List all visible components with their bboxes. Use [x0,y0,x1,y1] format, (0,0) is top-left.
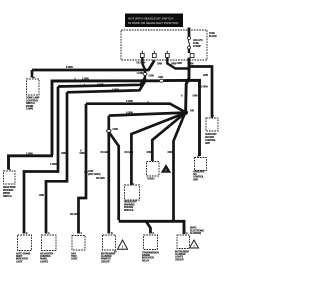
fuse HAZ-LPS 20 AMP [188,37,203,50]
svg-text:DK GRN: DK GRN [125,152,134,154]
svg-text:UNIT: UNIT [193,179,199,181]
svg-text:LIGHT: LIGHT [71,259,78,261]
svg-text:AUXILIARY: AUXILIARY [193,171,205,174]
svg-text:CIRCUIT: CIRCUIT [175,259,184,261]
bottom box 1 [16,235,32,263]
connector pin 1 at fuse block bottom [137,51,146,65]
fan wire to box7 [125,113,186,185]
svg-text:LIGHT: LIGHT [16,261,23,263]
svg-text:S40: S40 [190,110,195,113]
svg-text:DK GRN: DK GRN [101,152,110,154]
svg-text:HEATER: HEATER [205,136,214,139]
radio box [147,162,160,181]
bottom box 5 transmission [142,235,159,262]
right box RB1 [205,116,218,146]
svg-text:8 ORN: 8 ORN [66,67,73,69]
svg-text:(WITH: (WITH [190,228,197,230]
svg-text:ASH: ASH [71,253,76,256]
svg-text:ORN: ORN [203,75,208,77]
svg-text:DK GRN: DK GRN [70,214,79,216]
svg-text:FUSE: FUSE [193,43,199,45]
wire L2 (2 ORN) splice to C208 [109,113,185,116]
svg-text:IN PARK OR HEADLIGHT POSITION: IN PARK OR HEADLIGHT POSITION [128,21,178,25]
svg-text:FUSE: FUSE [209,33,215,35]
svg-text:INDICATOR: INDICATOR [142,257,154,260]
nest wire 3 (1 ORN) to splice [67,82,145,93]
svg-text:WIPER: WIPER [3,193,11,195]
svg-text:CLUSTER): CLUSTER) [190,233,201,235]
svg-text:AUXILIARY: AUXILIARY [205,133,217,136]
svg-text:2 ORN: 2 ORN [201,87,208,89]
nest wire 1 horizontal (1 ORN) [52,77,208,156]
svg-text:ORN: ORN [157,63,162,65]
svg-text:ORN: ORN [147,152,152,154]
warning triangle right [190,240,199,248]
bottom box 3 [71,236,85,261]
wire to rear window switch [9,154,54,170]
svg-text:C200: C200 [149,76,155,78]
svg-text:(DOME: (DOME [26,106,34,108]
pin label feed [181,95,198,98]
wire branch to auxiliary box right (top) [190,67,212,118]
pin labels row above fan labels [61,153,85,155]
wire below C208 to box4 [96,133,110,234]
svg-text:TRAY: TRAY [71,255,77,258]
svg-text:ORN: ORN [193,96,198,98]
C208 connector [107,116,119,133]
with electronic cluster note [190,228,205,236]
rear window wiper washer switch box [3,170,16,199]
svg-text:A/C-HEATER: A/C-HEATER [40,253,54,256]
svg-text:WASHER/: WASHER/ [3,189,14,192]
svg-text:ORN: ORN [61,153,66,155]
connector pin 3 at fuse block bottom [165,51,176,66]
pin letters bottom boxes [26,232,188,235]
svg-text:INDICATOR: INDICATOR [16,258,28,261]
svg-text:COURTESY: COURTESY [26,100,39,102]
svg-text:HOT WITH HEADLIGHT SWITCH: HOT WITH HEADLIGHT SWITCH [128,16,173,20]
dome lamp box [26,78,40,111]
svg-text:C203: C203 [177,63,183,65]
svg-text:LIGHTS: LIGHTS [40,261,48,263]
warning triangle near radio [161,165,171,173]
svg-text:WARNING: WARNING [124,203,135,206]
svg-text:A: A [80,150,82,153]
svg-text:CONTROL: CONTROL [205,140,216,142]
svg-text:B: B [111,233,113,235]
fan wire to bus [168,113,186,221]
svg-text:DK GRN: DK GRN [137,63,146,65]
svg-text:SWITCH: SWITCH [26,103,35,105]
bottom box 6 instrument cluster [175,235,190,261]
junction nest1 with feed [187,79,191,83]
wire 8 ORN to dome lamp [32,61,154,78]
bottom box 2 [40,235,56,263]
svg-text:AUTO TRANS: AUTO TRANS [16,253,31,256]
svg-text:2 ORN: 2 ORN [126,101,133,103]
svg-text:LAMP): LAMP) [26,108,33,111]
wire from title box to fuse [188,28,191,38]
svg-text:C201: C201 [158,77,164,79]
svg-text:1 ORN: 1 ORN [82,78,89,80]
svg-text:C208: C208 [113,129,119,131]
svg-text:ORN: ORN [168,152,173,154]
svg-text:E: E [26,233,28,235]
svg-text:RANGE: RANGE [142,254,150,257]
wires C2 C3 merge to feed [167,58,188,69]
svg-text:PANEL: PANEL [40,258,48,261]
wire from nest2 area to box3 upper label [80,150,82,153]
splice S40 [183,110,194,115]
nest wire 2 (2 ORN) to splice [58,78,145,87]
svg-text:CIRCUIT: CIRCUIT [101,261,110,263]
svg-text:HAZ-LPS: HAZ-LPS [193,39,203,42]
svg-text:A: A [181,95,183,98]
bottom bus wire [119,221,184,234]
nest wire 3 vertical, jog to box2 [39,92,67,233]
fan wire to radio box [147,113,186,161]
branch bus to box5 [146,221,151,233]
svg-text:DK GRN: DK GRN [96,178,105,180]
svg-text:BUZZER: BUZZER [124,207,133,209]
svg-text:ELECTRONIC: ELECTRONIC [190,230,205,232]
svg-text:RELAY: RELAY [142,259,150,262]
fuse block name label [209,33,217,38]
svg-text:HEADLIGHT: HEADLIGHT [124,201,137,204]
main feed wire C4 to splice S40 [186,58,189,113]
wire L1 (2 ORN) splice to left, down to box3 [86,101,185,112]
svg-text:2 ORN: 2 ORN [50,164,57,166]
bottom box 4 [101,235,116,263]
svg-text:1 ORN: 1 ORN [112,90,119,92]
svg-text:C210: C210 [88,171,94,173]
title box HOT WITH HEADLIGHT SWITCH [125,14,183,28]
svg-text:ORN: ORN [39,195,44,197]
wire C1 down through connector to nest3 [137,58,155,82]
connector pin 2 at fuse block bottom [152,51,162,66]
svg-text:(ANT CHEV): (ANT CHEV) [88,173,101,176]
svg-text:20 AMP: 20 AMP [193,45,201,48]
svg-text:MODULE: MODULE [124,210,134,212]
svg-text:C: C [81,233,83,235]
tick marks on nest lines [75,78,148,104]
connector pin 4 at fuse block bottom [189,54,195,66]
fuse block dashed outline [121,30,207,60]
svg-text:ORN: ORN [80,153,85,155]
svg-text:REAR WDW: REAR WDW [3,186,16,189]
box7 headlight warning module [124,184,140,212]
svg-text:!: ! [165,169,166,173]
svg-text:2 ORN: 2 ORN [126,113,133,115]
svg-text:2 ORN: 2 ORN [26,154,33,156]
svg-text:!: ! [193,243,194,248]
svg-text:A/C: A/C [193,173,197,176]
branch below C208 to bottom bus [110,133,119,220]
warning triangle left of box5 [114,240,128,254]
svg-text:UNIT: UNIT [205,143,211,145]
svg-text:14: 14 [114,251,117,254]
right box RB2 [193,156,207,181]
svg-text:A: A [186,232,188,235]
svg-text:BLOCK: BLOCK [209,36,217,38]
svg-text:SWITCH: SWITCH [3,196,12,198]
svg-text:RADIO: RADIO [148,178,155,181]
svg-text:2 ORN: 2 ORN [97,84,104,86]
svg-text:TRANSMISSION: TRANSMISSION [142,252,159,255]
svg-text:1 ORN: 1 ORN [137,73,144,75]
nest wire 2 vertical to box1 [24,87,58,234]
svg-text:DOME LAMP: DOME LAMP [26,97,40,100]
wire fuse to connector C4 [188,49,190,53]
svg-text:D: D [153,233,155,235]
